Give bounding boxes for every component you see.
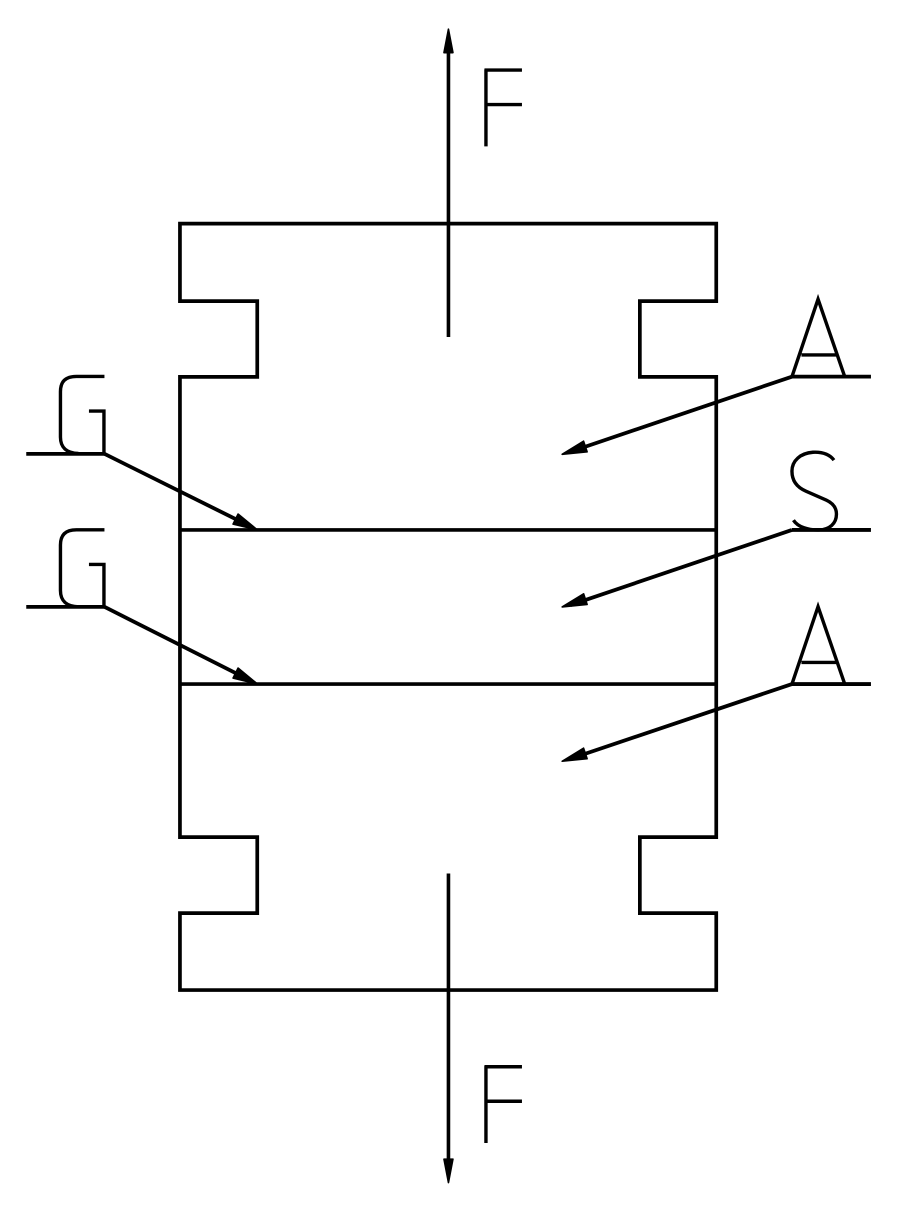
leader from G lower to weld line 2 — [104, 607, 257, 684]
leader from G upper to weld line 1 — [104, 454, 257, 530]
force arrow F bottom — [444, 873, 453, 1182]
weld interface line 2 — [180, 682, 716, 686]
label G upper — [60, 376, 104, 453]
label G lower underline — [26, 605, 104, 609]
label A upper — [792, 299, 845, 377]
label S — [792, 452, 837, 530]
leader from A lower into bottom section — [562, 684, 792, 761]
leader from S into middle section — [562, 530, 792, 607]
label F bottom — [484, 1066, 522, 1143]
weld interface line 1 — [180, 528, 716, 532]
force arrow F top — [444, 29, 453, 337]
label A lower — [792, 607, 845, 684]
label A lower shelf line — [792, 682, 871, 686]
specimen outline with notches — [180, 224, 716, 990]
label G lower — [60, 530, 104, 607]
label F top — [484, 69, 522, 146]
label S shelf line — [792, 528, 871, 532]
leader from A upper into top section — [562, 377, 792, 455]
label G upper underline — [26, 452, 104, 456]
label A upper shelf line — [792, 375, 871, 379]
